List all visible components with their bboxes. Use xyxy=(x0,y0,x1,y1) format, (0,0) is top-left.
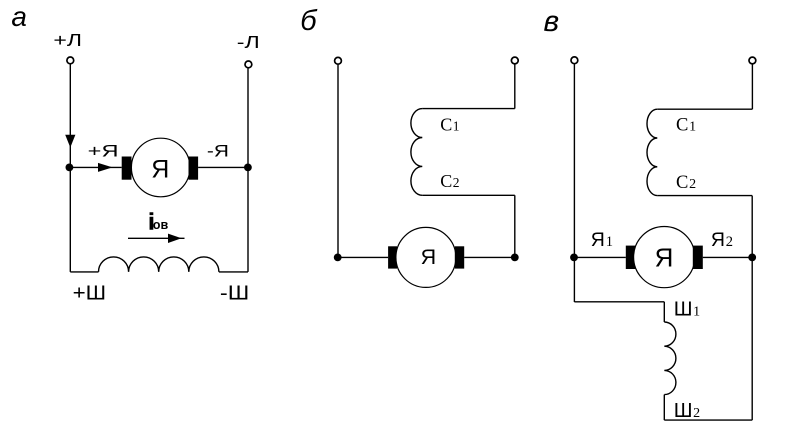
brush right v xyxy=(693,246,703,269)
brush left b xyxy=(388,246,397,268)
brush right b xyxy=(455,246,464,268)
svg-text:Я: Я xyxy=(151,156,169,184)
svg-text:Я: Я xyxy=(655,243,674,273)
shunt winding coil Sh1-Sh2 v xyxy=(664,322,676,395)
node: right junction b xyxy=(511,254,519,262)
armature circle a xyxy=(131,138,190,197)
wire: -L vertical xyxy=(247,68,249,272)
svg-text:-Ш: -Ш xyxy=(220,282,249,304)
wire: right vertical lower b xyxy=(514,195,516,257)
wire: right vertical top b xyxy=(514,64,516,108)
svg-text:Ш1: Ш1 xyxy=(674,297,700,320)
svg-text:Ш2: Ш2 xyxy=(674,399,700,422)
wire: left junction to brush v xyxy=(574,256,625,258)
wire: shunt coil bottom lead v xyxy=(663,395,665,421)
wire: brush to right junction v xyxy=(703,256,752,258)
series winding coil C1-C2 b xyxy=(411,109,422,196)
svg-text:+Л: +Л xyxy=(53,30,82,50)
series winding coil C1-C2 v xyxy=(647,109,657,195)
svg-text:а: а xyxy=(11,1,27,32)
armature circle v xyxy=(634,227,695,288)
wire: top horizontal to series coil v xyxy=(657,108,752,110)
brush left a xyxy=(122,157,132,180)
node: left junction a xyxy=(66,164,74,172)
svg-text:-Я: -Я xyxy=(207,142,229,161)
current arrow down on +L wire xyxy=(65,135,75,148)
svg-text:-Л: -Л xyxy=(237,32,260,52)
current arrow right on armature wire xyxy=(98,163,113,172)
svg-text:Я2: Я2 xyxy=(711,229,733,251)
wire: left vertical v xyxy=(573,64,575,302)
svg-text:С1: С1 xyxy=(440,114,459,134)
terminal right v (open circle) xyxy=(749,57,756,64)
wire: right vertical top v xyxy=(751,64,753,109)
terminal right b (open circle) xyxy=(511,57,518,64)
wire: left vertical b xyxy=(337,65,339,258)
svg-text:Я1: Я1 xyxy=(591,229,613,251)
svg-text:С2: С2 xyxy=(440,171,459,191)
svg-text:+Ш: +Ш xyxy=(73,282,107,304)
terminal +L (open circle) xyxy=(67,57,74,64)
wire: brush to right junction xyxy=(198,166,248,168)
svg-text:б: б xyxy=(300,5,318,37)
svg-text:С2: С2 xyxy=(676,173,696,193)
wire: bottom right segment xyxy=(219,271,248,273)
terminal -L (open circle) xyxy=(245,61,252,68)
wire: bottom horizontal left to shunt coil v xyxy=(574,301,664,303)
svg-text:+Я: +Я xyxy=(88,142,119,161)
wire: junction to armature brush xyxy=(69,166,121,168)
terminal left b (open circle) xyxy=(335,57,342,64)
node: right junction v xyxy=(748,254,756,262)
wire: shunt coil top lead v xyxy=(663,302,665,322)
wire: brush to right junction b xyxy=(464,256,515,258)
node: right junction a xyxy=(244,164,252,172)
arrow i_ov direction xyxy=(128,237,185,239)
terminal left v (open circle) xyxy=(571,57,578,64)
node: left junction v xyxy=(570,254,578,262)
field winding coil (shunt) a xyxy=(99,257,219,272)
svg-text:Я: Я xyxy=(421,245,437,269)
wire: bottom left segment xyxy=(70,271,98,273)
node: left junction b xyxy=(334,254,342,262)
wire: coil bottom to right v xyxy=(657,195,752,197)
svg-text:ов: ов xyxy=(153,218,169,232)
wire: right vertical (junction leg) v xyxy=(751,196,753,421)
wire: top horizontal to series coil b xyxy=(422,108,515,110)
wire: coil bottom to right b xyxy=(422,194,515,196)
armature circle b xyxy=(396,227,456,287)
wire: left junction to brush b xyxy=(338,256,388,258)
wire: +L vertical xyxy=(69,64,71,272)
svg-text:С1: С1 xyxy=(676,116,696,136)
brush right a xyxy=(189,157,199,180)
wire: bottom horizontal right v xyxy=(664,419,752,421)
brush left v xyxy=(626,246,636,269)
svg-text:в: в xyxy=(544,5,560,38)
